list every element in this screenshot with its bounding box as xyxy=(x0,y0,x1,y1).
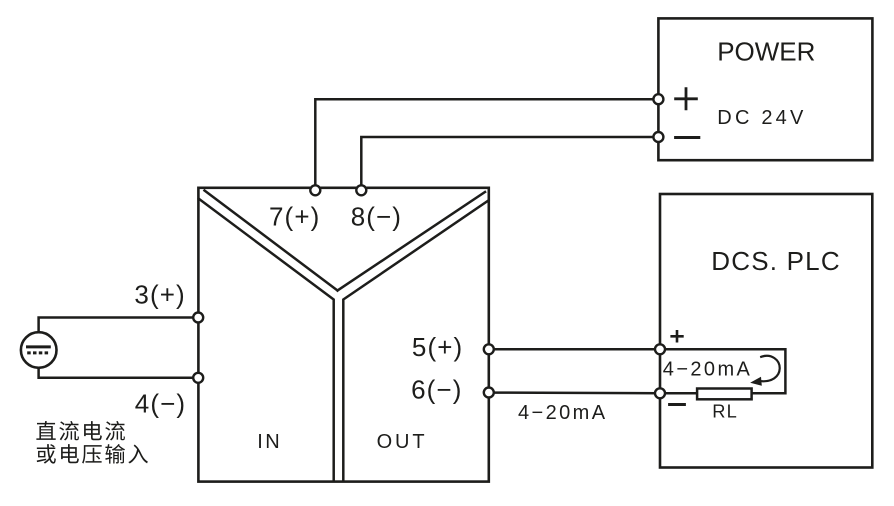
svg-text:DC 24V: DC 24V xyxy=(717,107,806,129)
DC source dashed bar xyxy=(27,351,49,354)
svg-text:RL: RL xyxy=(712,401,738,422)
DC source solid bar xyxy=(28,345,50,348)
wire terminal 6 to DCS - xyxy=(489,391,660,394)
wire terminal 5 to DCS + xyxy=(489,348,660,351)
DCS PLC box xyxy=(660,194,872,468)
label text "或电压输入" (chinese) xyxy=(37,444,148,464)
svg-text:7(+): 7(+) xyxy=(269,201,320,231)
svg-text:8(−): 8(−) xyxy=(351,201,402,231)
svg-text:POWER: POWER xyxy=(717,37,815,67)
DCS terminal - node xyxy=(655,388,665,398)
wire terminal 8 to power supply - xyxy=(361,137,658,191)
terminal 5 xyxy=(484,344,494,354)
svg-text:IN: IN xyxy=(257,431,282,453)
terminal 3 xyxy=(193,313,203,323)
terminal 6 xyxy=(484,388,494,398)
power terminal + node xyxy=(653,94,663,104)
terminal 7 xyxy=(310,185,320,195)
DCS internal loop wire left of resistor xyxy=(660,392,697,395)
svg-text:4(−): 4(−) xyxy=(135,389,186,419)
isolation barrier right lower diagonal and right divider vertical xyxy=(343,201,488,481)
DC source symbol circle xyxy=(21,332,57,368)
load resistor RL xyxy=(697,389,752,400)
isolation barrier left upper diagonal xyxy=(205,191,338,291)
terminal 4 xyxy=(193,373,203,383)
wire terminal 7 to power supply + xyxy=(315,99,658,190)
isolation barrier left lower diagonal and left divider vertical xyxy=(199,199,334,481)
current direction arrow arc xyxy=(761,356,780,381)
terminal 8 xyxy=(356,185,366,195)
svg-text:4−20mA: 4−20mA xyxy=(663,358,752,380)
isolator module U1 box xyxy=(198,188,488,482)
wire source - to terminal 4 xyxy=(39,368,199,378)
wire source + to terminal 3 xyxy=(39,318,199,333)
power + sign xyxy=(676,89,697,109)
svg-text:3(+): 3(+) xyxy=(134,280,185,310)
svg-text:4−20mA: 4−20mA xyxy=(518,402,607,424)
DCS - sign xyxy=(670,403,685,406)
DCS internal loop wire top and right xyxy=(660,349,785,393)
label text "直流电流" (chinese) xyxy=(36,421,125,441)
POWER box xyxy=(658,18,872,160)
DCS + sign xyxy=(672,331,683,341)
DCS terminal + node xyxy=(655,344,665,354)
power terminal - node xyxy=(653,132,663,142)
svg-text:5(+): 5(+) xyxy=(412,332,463,362)
svg-text:6(−): 6(−) xyxy=(411,374,462,404)
svg-text:OUT: OUT xyxy=(377,431,428,453)
isolation barrier right upper diagonal xyxy=(338,192,486,291)
current direction arrowhead xyxy=(750,377,762,386)
power - sign xyxy=(676,136,699,139)
svg-text:DCS. PLC: DCS. PLC xyxy=(711,246,841,276)
